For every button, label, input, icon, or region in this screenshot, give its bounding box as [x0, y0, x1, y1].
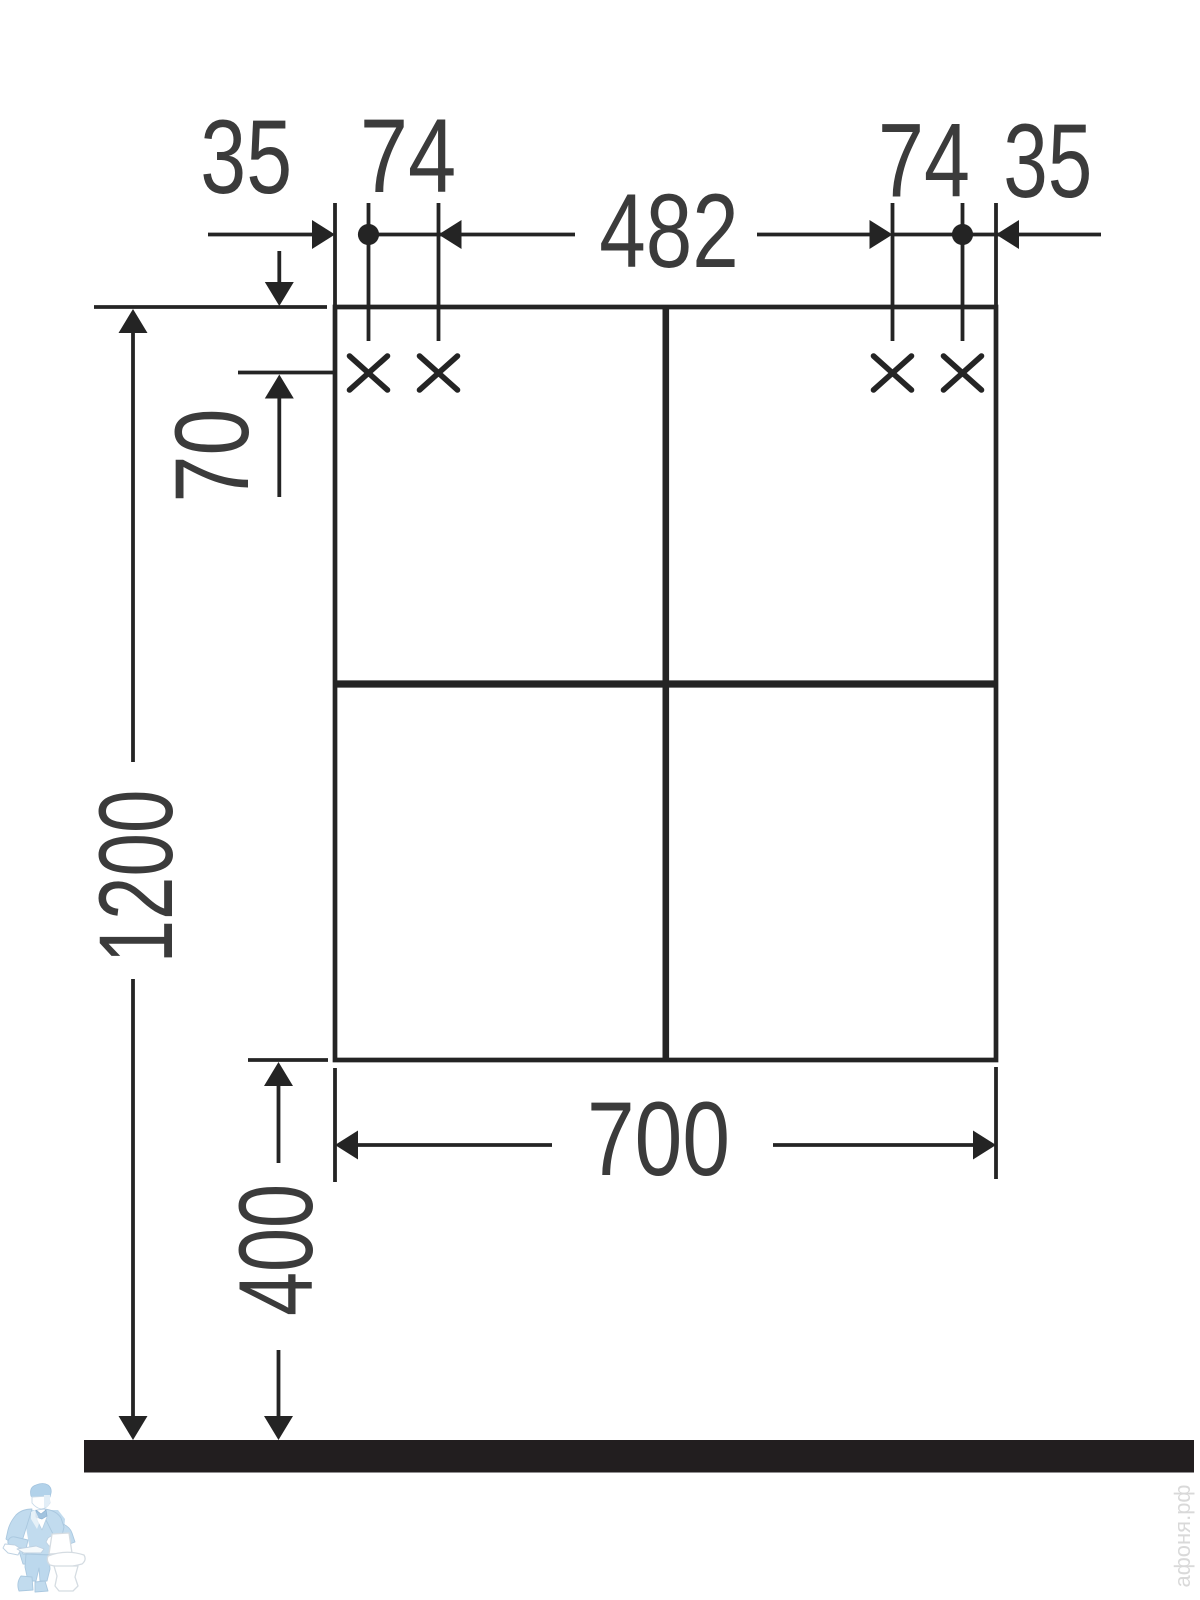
vertical door gap divider	[662, 307, 669, 1060]
dim 400 lower stem	[277, 1350, 281, 1418]
arrowhead 482 right pointing right	[870, 220, 893, 249]
watermark toilet seat rim	[47, 1552, 85, 1567]
anchor extension line 4	[961, 203, 965, 341]
bottom extension line (cabinet bottom extended left)	[248, 1058, 328, 1062]
hair	[31, 1484, 52, 1499]
shirt white V	[37, 1509, 47, 1530]
arrowhead 400 top pointing up	[264, 1062, 293, 1086]
extension line below cabinet right	[994, 1067, 998, 1179]
dim 70 bottom arrow stem	[277, 398, 281, 497]
dim 400 upper stem	[277, 1085, 281, 1163]
right boot	[35, 1581, 48, 1592]
arrowhead 70 top pointing down	[265, 282, 294, 306]
bowtie	[36, 1510, 47, 1519]
extension line right edge above cabinet	[994, 203, 998, 307]
horizontal middle divider	[335, 680, 996, 687]
svg-text:1200: 1200	[77, 790, 195, 964]
arrowhead 1200 bottom pointing down	[119, 1416, 148, 1440]
pants	[25, 1554, 50, 1581]
anchor extension line 3	[891, 203, 895, 341]
X mark 1	[350, 356, 388, 390]
chest fill	[26, 1510, 65, 1557]
X mark 2	[420, 356, 458, 390]
dim 70 top arrow stem	[277, 251, 281, 284]
svg-text:35: 35	[1003, 101, 1092, 219]
tool	[17, 1546, 44, 1553]
watermark plumber figure	[3, 1484, 85, 1593]
X mark 4	[944, 356, 982, 390]
face	[32, 1496, 50, 1509]
dim 700 right segment	[773, 1143, 974, 1147]
svg-text:74: 74	[360, 98, 456, 215]
jacket torso	[6, 1509, 75, 1565]
dim line 35 right	[893, 233, 1102, 237]
dim 1200 lower stem	[131, 979, 135, 1418]
arrowhead 400 bottom pointing down	[264, 1416, 293, 1440]
dim line 74-482 left segment	[368, 233, 575, 237]
arrowhead 700 right pointing right	[973, 1131, 996, 1160]
svg-text:700: 700	[587, 1081, 730, 1198]
arrowhead 482 left pointing left	[439, 220, 462, 249]
svg-text:482: 482	[599, 173, 738, 290]
floor bar	[84, 1440, 1194, 1473]
svg-text:35: 35	[200, 100, 292, 217]
extension line left edge above cabinet	[333, 203, 337, 307]
arrowhead 1200 top pointing up	[119, 309, 148, 333]
left hand	[3, 1544, 21, 1555]
arrowhead 700 left pointing left	[335, 1131, 358, 1160]
dim 700 left segment	[357, 1143, 552, 1147]
anchor extension line 1	[367, 203, 371, 341]
dim line 482 right segment	[757, 233, 870, 237]
svg-text:74: 74	[878, 102, 970, 220]
dim 70 bottom reference line	[238, 371, 337, 375]
right hand on tank	[46, 1536, 61, 1546]
arrowhead 70 bottom pointing up	[265, 375, 294, 399]
top extension line (cabinet top extended left)	[94, 305, 327, 309]
terminator dot left	[358, 224, 379, 245]
X mark 3	[874, 356, 912, 390]
arrowhead 35 left pointing right	[312, 220, 335, 249]
jacket right shoulder mass	[44, 1509, 64, 1544]
cabinet outline	[335, 307, 996, 1060]
arrowhead 35 right pointing left	[996, 220, 1019, 249]
left boot	[18, 1576, 33, 1591]
svg-text:400: 400	[217, 1184, 334, 1316]
svg-text:афоня.рф: афоня.рф	[1170, 1484, 1195, 1587]
svg-text:70: 70	[154, 408, 271, 502]
dim line 35 left	[208, 233, 313, 237]
watermark toilet tank	[49, 1533, 72, 1554]
extension line below cabinet left	[333, 1068, 337, 1182]
face shade	[44, 1495, 50, 1508]
anchor extension line 2	[437, 203, 441, 341]
lapel white streak	[31, 1510, 40, 1529]
dim 1200 upper stem	[131, 331, 135, 762]
watermark toilet bowl base	[54, 1566, 78, 1591]
terminator dot right	[952, 224, 973, 245]
left sleeve	[8, 1537, 28, 1549]
